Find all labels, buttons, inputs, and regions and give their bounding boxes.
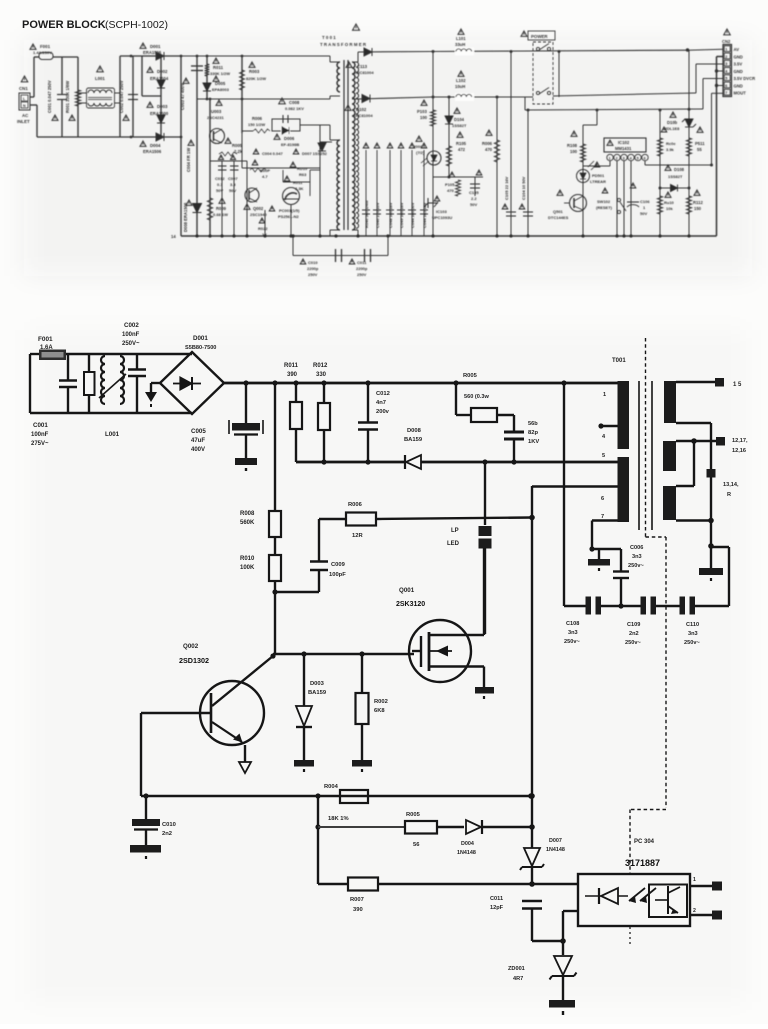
svg-text:1.6A: 1.6A: [40, 345, 53, 351]
svg-text:EPA8003: EPA8003: [212, 87, 230, 92]
svg-text:250V~: 250V~: [122, 341, 140, 347]
diode D001 ERA1506: [130, 55, 133, 58]
svg-text:3.5V: 3.5V: [734, 62, 743, 67]
svg-text:560 (0.3w: 560 (0.3w: [464, 394, 490, 400]
svg-text:C012: C012: [376, 391, 390, 397]
svg-text:C001: C001: [33, 422, 48, 429]
diode D108 1SS82: [660, 187, 689, 189]
svg-text:6K8: 6K8: [374, 708, 385, 714]
svg-text:R005: R005: [232, 143, 243, 148]
svg-text:18K 1%: 18K 1%: [328, 816, 349, 822]
svg-text:275V~: 275V~: [31, 441, 49, 447]
resistor R108 100: [582, 125, 584, 236]
LED LP chain: [484, 462, 486, 525]
svg-text:ERA1506: ERA1506: [143, 50, 162, 55]
svg-text:330: 330: [316, 372, 327, 378]
svg-text:1SS82T: 1SS82T: [668, 174, 683, 179]
capacitor C108 3n3 250V: [586, 597, 592, 615]
CN2 pin7 MOUT wire: [712, 92, 724, 94]
IC102 pin wires: [609, 161, 611, 166]
svg-text:EF-8198B: EF-8198B: [281, 142, 299, 147]
common-mode choke L001: [101, 356, 105, 404]
svg-text:C011: C011: [490, 896, 503, 902]
svg-text:R008: R008: [240, 511, 255, 517]
svg-text:250v~: 250v~: [625, 640, 641, 646]
svg-text:100K: 100K: [240, 565, 255, 571]
LED PD501 LTREAR: [577, 170, 590, 183]
diode D101 ERC81004: [358, 51, 430, 54]
resistor R009 0.68 1W: [207, 198, 212, 220]
svg-text:C002 0.047 250V: C002 0.047 250V: [119, 80, 124, 113]
svg-text:R005: R005: [463, 373, 478, 379]
diode D003 ERA1500: [157, 115, 165, 123]
inductor L102 10uH: [458, 71, 464, 76]
svg-text:1.4A/250V: 1.4A/250V: [33, 50, 52, 55]
svg-text:P00C1: P00C1: [413, 144, 426, 149]
svg-text:UPC1093U: UPC1093U: [432, 215, 452, 220]
svg-text:PC 304: PC 304: [634, 839, 655, 845]
wire mid right block: [433, 176, 483, 178]
svg-text:200v: 200v: [376, 409, 390, 415]
resistor RD10 R63: [290, 162, 296, 167]
svg-text:50V: 50V: [216, 188, 223, 193]
resistor R003 820K 1/2W: [241, 56, 243, 133]
svg-text:14: 14: [171, 234, 176, 239]
svg-text:C044 160 50V: C044 160 50V: [410, 202, 415, 228]
svg-text:470: 470: [447, 188, 454, 193]
svg-text:S5B80-7500: S5B80-7500: [185, 345, 216, 351]
svg-text:CN1: CN1: [19, 86, 28, 91]
opto-coupler PC001 2/5: [427, 151, 441, 165]
wire bridge right vertical: [180, 56, 182, 236]
resistor P105 470: [456, 180, 461, 196]
resistor R006 12R with C009 100pF: [319, 518, 346, 520]
svg-text:50V: 50V: [229, 188, 236, 193]
svg-text:3: 3: [725, 62, 727, 66]
svg-text:R105: R105: [456, 141, 467, 146]
svg-text:D007: D007: [549, 838, 562, 844]
svg-text:R022: R022: [258, 226, 268, 231]
svg-text:C040 220 10V: C040 220 10V: [375, 202, 380, 228]
vertical supply lines: [510, 52, 512, 237]
svg-text:4.7: 4.7: [262, 174, 268, 179]
svg-text:100: 100: [420, 115, 428, 120]
svg-text:R006: R006: [252, 116, 263, 121]
svg-text:470: 470: [485, 147, 493, 152]
opto LED: [601, 888, 618, 904]
svg-text:PD501: PD501: [592, 173, 605, 178]
svg-text:3.3: 3.3: [230, 182, 236, 187]
opto feedback pin 2 wire: [562, 911, 564, 941]
svg-text:12pF: 12pF: [490, 905, 504, 911]
svg-text:5: 5: [725, 77, 727, 81]
svg-text:C001 0.047 250V: C001 0.047 250V: [47, 80, 52, 113]
CN2 ground bus: [717, 56, 724, 58]
resistor R002 6K8: [361, 654, 363, 693]
svg-text:3.5V DVCR: 3.5V DVCR: [734, 76, 756, 81]
svg-text:C113: C113: [357, 64, 368, 69]
svg-text:AC: AC: [22, 113, 29, 118]
fuse F001: [34, 56, 39, 58]
svg-text:POWER BLOCK: POWER BLOCK: [22, 19, 106, 31]
svg-text:L101: L101: [456, 36, 466, 41]
capacitor C010 2n2: [145, 796, 147, 819]
svg-text:R011: R011: [284, 363, 299, 369]
svg-text:472: 472: [458, 147, 466, 152]
snubber C008 0.082 1kV with diode D006: [242, 130, 253, 132]
svg-text:(SCPH-1002): (SCPH-1002): [105, 19, 168, 31]
rail A into CN2 pin1: [686, 48, 689, 51]
svg-text:PC001(1/5): PC001(1/5): [279, 208, 300, 213]
isolation barrier dashed: [646, 536, 667, 538]
svg-text:R012: R012: [313, 363, 328, 369]
svg-text:D001: D001: [193, 335, 208, 342]
svg-text:1 5: 1 5: [733, 382, 742, 388]
rail A 3.5V top: [430, 50, 688, 51]
svg-text:Ru10: Ru10: [664, 200, 675, 205]
svg-text:C004 0.047: C004 0.047: [262, 151, 283, 156]
svg-text:LTREAR: LTREAR: [590, 179, 606, 184]
snubber R005 560: [455, 383, 457, 415]
rail B continue to CN2 pin3: [553, 93, 696, 96]
capacitor C003 47uF 400V: [196, 56, 198, 236]
capacitor C001 100nF 275V: [67, 354, 69, 380]
wire R010 bottom to gate rail: [274, 592, 276, 654]
diode D004 ERA1506: [130, 136, 133, 139]
zener ZD001 4R7: [562, 941, 564, 955]
svg-text:C010: C010: [308, 260, 318, 265]
svg-text:T 0 0 1: T 0 0 1: [322, 35, 336, 40]
resistor R104 3.9k: [657, 138, 662, 156]
svg-text:L001: L001: [95, 76, 105, 81]
MOSFET source ground: [483, 667, 485, 688]
DC+ rail: [224, 382, 618, 385]
svg-text:P511: P511: [695, 141, 705, 146]
svg-text:56b: 56b: [528, 421, 538, 427]
diode D004 1N4148: [466, 820, 481, 834]
svg-text:D102: D102: [356, 107, 367, 112]
svg-text:0.68 1W: 0.68 1W: [213, 212, 228, 217]
svg-text:R011: R011: [293, 180, 303, 185]
switch SW101 POWER: [521, 31, 527, 36]
svg-text:INLET: INLET: [17, 119, 30, 124]
svg-text:2SD1302: 2SD1302: [179, 656, 209, 665]
top primary rail: [181, 55, 330, 57]
connector CN2: [724, 29, 731, 35]
svg-text:5: 5: [637, 157, 639, 161]
IC103 UPC1093: [424, 198, 438, 208]
svg-text:2SK3120: 2SK3120: [396, 601, 425, 608]
svg-text:R005: R005: [406, 812, 421, 818]
svg-text:55: 55: [697, 147, 702, 152]
svg-text:2n2: 2n2: [162, 831, 172, 837]
opto output wires: [690, 885, 716, 887]
svg-text:ERA1500: ERA1500: [150, 111, 169, 116]
svg-text:F001: F001: [38, 336, 53, 343]
svg-text:R006: R006: [348, 502, 363, 508]
fuse F001 1.6A: [30, 353, 39, 355]
svg-text:100nF: 100nF: [31, 432, 49, 438]
svg-text:U003: U003: [211, 109, 222, 114]
svg-text:D003: D003: [157, 104, 168, 109]
resistor R112 150: [686, 196, 691, 214]
rail mid primary: [197, 98, 330, 100]
capacitor C006 82p 1kV: [513, 415, 515, 431]
svg-text:T R A N S F O R M E R: T R A N S F O R M E R: [320, 42, 367, 47]
svg-text:P103: P103: [417, 109, 427, 114]
svg-text:1KV: 1KV: [528, 439, 539, 445]
svg-text:P105: P105: [445, 182, 455, 187]
zener D007 1N4148: [524, 848, 540, 866]
svg-text:Q001: Q001: [399, 587, 415, 594]
svg-text:C007: C007: [228, 176, 238, 181]
T001 primary winding bars: [618, 381, 630, 449]
svg-text:C011: C011: [357, 260, 367, 265]
svg-text:F001: F001: [40, 44, 51, 49]
secondary filter label columns: [365, 150, 367, 236]
svg-text:RDL1E8: RDL1E8: [664, 126, 680, 131]
svg-text:C002: C002: [124, 322, 139, 329]
svg-text:56: 56: [413, 842, 420, 848]
svg-text:D007 1SS252: D007 1SS252: [302, 151, 328, 156]
svg-text:1: 1: [725, 48, 727, 52]
svg-text:5: 5: [602, 453, 605, 459]
svg-text:C106: C106: [640, 199, 650, 204]
feedback divider wire: [317, 796, 319, 884]
svg-text:Q501: Q501: [553, 209, 564, 214]
connector CN1 AC INLET: [21, 76, 28, 82]
line-filter choke L001: [97, 66, 104, 72]
svg-text:3: 3: [623, 157, 625, 161]
right block left vertical: [432, 52, 434, 237]
svg-text:LED: LED: [447, 541, 460, 547]
diode D008 BA159: [406, 455, 421, 469]
svg-text:3.9k: 3.9k: [666, 147, 675, 152]
svg-text:250V: 250V: [308, 272, 318, 277]
svg-text:400V: 400V: [191, 447, 205, 453]
svg-text:C105 22 16V: C105 22 16V: [504, 176, 509, 200]
svg-text:12,16: 12,16: [732, 448, 746, 454]
Y-capacitors C010 C011 2200p 250V: [292, 236, 294, 256]
resistor vertical input: [88, 354, 90, 372]
T001 pin4 stub: [601, 425, 618, 427]
svg-text:GND: GND: [734, 69, 743, 74]
resistor R511 55: [686, 138, 691, 156]
rail C to CN2 pin5: [524, 97, 526, 110]
svg-text:R006: R006: [482, 141, 493, 146]
svg-text:C008: C008: [289, 100, 300, 105]
diode D008 ERA1506 vertical: [193, 204, 202, 213]
capacitor C004 FR 1kV: [188, 140, 194, 145]
resistor R022 1K: [264, 210, 266, 236]
capacitor C002 0.047 250V: [132, 56, 134, 137]
svg-text:100: 100: [570, 149, 578, 154]
zener D106 RDL1E8: [659, 110, 661, 236]
svg-text:C006: C006: [630, 545, 643, 551]
svg-text:D004: D004: [150, 143, 161, 148]
svg-text:D108: D108: [674, 167, 685, 172]
svg-text:C110: C110: [686, 622, 699, 628]
svg-text:R002: R002: [374, 699, 388, 705]
svg-text:Q002: Q002: [253, 206, 264, 211]
resistor R008 560K: [274, 383, 276, 511]
diode D003 BA159: [303, 654, 305, 706]
feedback rail base: [140, 713, 142, 796]
svg-text:2n2: 2n2: [629, 631, 639, 637]
wire AC bottom: [37, 136, 181, 138]
capacitor C135 2.2 50V: [474, 177, 476, 196]
svg-text:R112: R112: [693, 200, 703, 205]
svg-text:BA159: BA159: [404, 437, 423, 443]
diode D104 1SS82: [448, 97, 450, 177]
T001 secondary winding bars: [664, 381, 676, 423]
svg-text:C108: C108: [566, 621, 579, 627]
svg-text:2.2: 2.2: [471, 196, 477, 201]
svg-text:ERC81004: ERC81004: [354, 70, 374, 75]
svg-text:SW102: SW102: [597, 199, 611, 204]
svg-text:D008 ERA1506: D008 ERA1506: [183, 202, 188, 232]
svg-text:ERC81004: ERC81004: [353, 113, 373, 118]
svg-text:150 1/2W: 150 1/2W: [248, 122, 265, 127]
svg-text:2SC4231: 2SC4231: [207, 115, 224, 120]
svg-text:C009: C009: [331, 562, 346, 568]
IC102 regulator: [604, 138, 646, 152]
svg-text:390: 390: [353, 907, 363, 913]
svg-text:IC103: IC103: [436, 209, 447, 214]
rail bottom dots: [195, 234, 198, 237]
svg-text:C010: C010: [162, 822, 176, 828]
svg-text:1N4148: 1N4148: [457, 850, 476, 856]
wire AC input left: [29, 354, 31, 413]
capacitor C106 1 50V: [627, 201, 639, 203]
transistor Q501 DTC144ES: [570, 195, 587, 212]
capacitor C011 12pF: [522, 900, 542, 902]
svg-text:R63: R63: [299, 172, 307, 177]
capacitor C006 3n3 250V: [620, 549, 622, 571]
svg-text:PS2561-N2: PS2561-N2: [278, 214, 299, 219]
opto-coupler PC001 1/5 PS2561: [283, 188, 300, 205]
svg-text:3n3: 3n3: [688, 631, 698, 637]
svg-text:3n3: 3n3: [568, 630, 578, 636]
svg-text:250V: 250V: [357, 272, 367, 277]
resistor R007 390: [318, 883, 348, 885]
svg-text:AV: AV: [734, 47, 740, 52]
svg-text:2: 2: [725, 55, 727, 59]
svg-text:4: 4: [630, 157, 632, 161]
svg-text:D006: D006: [284, 136, 295, 141]
svg-text:1N4148: 1N4148: [546, 847, 565, 853]
svg-text:R108: R108: [567, 143, 578, 148]
svg-text:0.082 1KV: 0.082 1KV: [285, 106, 304, 111]
svg-text:250v~: 250v~: [564, 639, 580, 645]
svg-text:C012: C012: [215, 176, 225, 181]
svg-text:4R7: 4R7: [513, 976, 523, 982]
svg-text:150: 150: [694, 206, 702, 211]
svg-text:ERA1506: ERA1506: [143, 149, 162, 154]
svg-text:47uF: 47uF: [191, 438, 205, 444]
svg-text:6: 6: [601, 496, 604, 502]
svg-text:R011: R011: [213, 65, 224, 70]
svg-text:GND: GND: [734, 83, 743, 88]
svg-text:ERA1504: ERA1504: [150, 76, 169, 81]
svg-text:LP: LP: [451, 528, 459, 534]
svg-text:GND: GND: [734, 54, 743, 59]
svg-text:R003: R003: [249, 69, 260, 74]
opto phototransistor: [667, 886, 669, 914]
diode D007 1SS252: [318, 143, 326, 151]
svg-text:82p: 82p: [528, 430, 538, 436]
resistor R011 3.3K: [284, 176, 290, 181]
secondary wiring: [676, 422, 711, 424]
resistor R005 2.2k: [225, 138, 231, 143]
svg-text:C049 160 16V: C049 160 16V: [399, 202, 404, 228]
svg-text:10k: 10k: [666, 206, 673, 211]
svg-text:C005: C005: [191, 428, 206, 435]
transformer T001 primary: [353, 24, 360, 30]
svg-text:R001 330K 1/6W: R001 330K 1/6W: [65, 81, 70, 113]
svg-text:6: 6: [644, 157, 646, 161]
svg-text:2200p: 2200p: [356, 266, 368, 271]
capacitor C012 4n7 2kV: [367, 383, 369, 422]
svg-text:ZD001: ZD001: [508, 966, 525, 972]
svg-text:MOUT: MOUT: [734, 91, 747, 96]
svg-text:6: 6: [725, 84, 727, 88]
capacitors C012 C007 0.1/3.3 50V: [210, 160, 247, 162]
wire CN1 to filter: [30, 96, 34, 98]
svg-text:D104: D104: [454, 117, 465, 122]
wire snubber to transformer: [300, 124, 320, 126]
capacitor C005 47uF 400V: [245, 383, 247, 423]
svg-text:(7/2): (7/2): [416, 150, 425, 155]
T001 pin6 wire: [532, 485, 618, 487]
wire lower mid connections: [242, 167, 320, 169]
svg-text:C104 10 50V: C104 10 50V: [521, 176, 526, 200]
svg-text:IC102: IC102: [618, 140, 630, 145]
svg-text:R010: R010: [240, 556, 255, 562]
svg-text:7: 7: [725, 91, 727, 95]
resistor R007 4.7: [252, 160, 258, 165]
svg-text:D005: D005: [215, 81, 226, 86]
resistor R005 56: [318, 826, 405, 828]
svg-text:C135: C135: [469, 190, 479, 195]
inductor L101 33uH: [458, 29, 464, 34]
svg-text:D003: D003: [310, 681, 325, 687]
svg-text:D002: D002: [157, 69, 168, 74]
resistor R001 330K: [77, 57, 79, 137]
gate wire: [273, 653, 414, 655]
svg-text:L102: L102: [456, 78, 466, 83]
bridge rectifier D001 S5B80-7500: [163, 353, 192, 355]
svg-text:1: 1: [609, 157, 611, 161]
svg-text:R: R: [727, 492, 731, 498]
secondary ground bar: [710, 546, 712, 568]
svg-text:10uH: 10uH: [455, 84, 465, 89]
svg-text:7: 7: [601, 514, 604, 520]
svg-text:560K: 560K: [240, 520, 255, 526]
svg-text:1: 1: [693, 877, 696, 883]
secondary pin 15: [676, 381, 718, 383]
svg-text:1: 1: [603, 392, 606, 398]
opto arrows: [629, 888, 656, 901]
svg-text:2200p: 2200p: [307, 266, 319, 271]
svg-text:D001: D001: [150, 44, 161, 49]
svg-text:R009: R009: [216, 206, 227, 211]
svg-text:DTC144ES: DTC144ES: [548, 215, 569, 220]
svg-text:(RESET): (RESET): [596, 205, 613, 210]
capacitor C001 0.047 250V: [61, 57, 63, 94]
transistor Q003 2SC4231: [209, 99, 211, 236]
diode D102 ERC81004: [358, 97, 433, 99]
